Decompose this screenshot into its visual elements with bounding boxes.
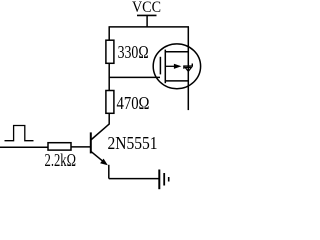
wire inner bottom bbox=[165, 80, 188, 82]
wire R2 bottom to collector bbox=[108, 113, 110, 124]
wire right drop through package bbox=[187, 27, 189, 110]
transistor Q1 emitter lead bbox=[91, 151, 105, 162]
svg-text:330Ω: 330Ω bbox=[118, 42, 149, 62]
svg-text:VCC: VCC bbox=[132, 0, 161, 16]
resistor R1 330 ohm body bbox=[106, 40, 114, 63]
wire input lead bbox=[0, 146, 48, 148]
resistor R2 470 ohm body bbox=[106, 91, 114, 114]
wire VCC stub bbox=[146, 15, 148, 27]
wire base lead bbox=[71, 146, 91, 148]
ground bar 2 bbox=[163, 173, 165, 186]
wire R1 bottom to R2 top bbox=[108, 63, 110, 90]
wire top rail bbox=[109, 26, 190, 28]
svg-text:2N5551: 2N5551 bbox=[108, 133, 158, 153]
LD electrode tall bar bbox=[164, 50, 166, 84]
wire emitter stub bbox=[108, 165, 110, 179]
wire node to package anode bbox=[109, 76, 160, 78]
transistor Q1 base bar bbox=[90, 132, 92, 153]
photodiode D1 triangle bbox=[185, 68, 191, 72]
input pulse symbol bbox=[5, 126, 34, 141]
wire inner top bbox=[165, 51, 188, 53]
ground bar 3 bbox=[168, 177, 170, 182]
light emission arrow shaft bbox=[165, 65, 175, 67]
wire left drop to R1 bbox=[108, 27, 110, 40]
VCC power bar bbox=[137, 14, 157, 16]
wire emitter to ground bbox=[109, 178, 160, 180]
transistor Q1 collector lead bbox=[91, 124, 109, 140]
LD electrode short bar bbox=[159, 57, 161, 75]
light emission arrowhead bbox=[174, 64, 182, 69]
ground bar 1 bbox=[158, 170, 160, 190]
transistor Q1 emitter arrowhead bbox=[100, 159, 108, 166]
laser diode package circle U1 bbox=[153, 44, 200, 89]
svg-text:2.2kΩ: 2.2kΩ bbox=[45, 150, 77, 170]
photodiode D1 cathode bent bar bbox=[184, 64, 192, 69]
svg-text:470Ω: 470Ω bbox=[117, 93, 150, 113]
resistor R3 2.2k body bbox=[48, 143, 71, 150]
